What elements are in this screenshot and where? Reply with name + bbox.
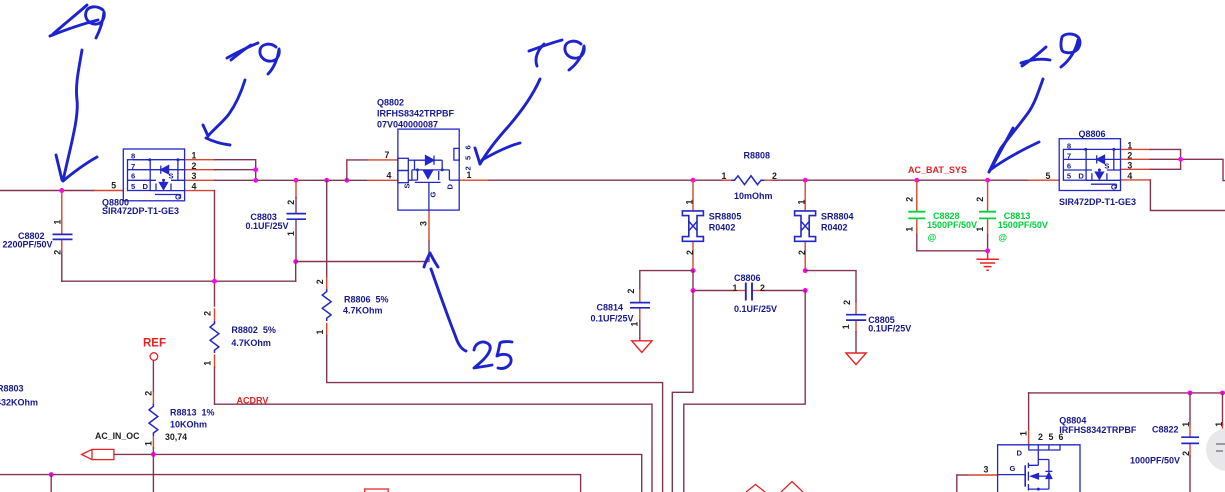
- wire C8828 vertical: [916, 180, 918, 251]
- node junction C8813 top: [985, 178, 990, 183]
- svg-text:SIR472DP-T1-GE3: SIR472DP-T1-GE3: [102, 206, 179, 216]
- svg-text:4: 4: [387, 170, 392, 180]
- svg-text:1500PF/50V: 1500PF/50V: [927, 220, 977, 230]
- annotation 19 arrow #3: [475, 40, 584, 164]
- svg-text:10KOhm: 10KOhm: [170, 419, 207, 429]
- svg-text:3: 3: [419, 221, 429, 226]
- svg-text:2: 2: [904, 197, 914, 202]
- node junction pin4/y281: [212, 279, 217, 284]
- node junction SR8804 top: [803, 178, 808, 183]
- capacitor C8806 plates: [746, 283, 752, 301]
- svg-text:1: 1: [144, 441, 154, 446]
- svg-text:1: 1: [192, 151, 197, 161]
- svg-text:5: 5: [464, 155, 473, 160]
- wire bottom y474: [0, 475, 581, 492]
- svg-text:1: 1: [1214, 422, 1224, 427]
- pins 2 1 C8814 rotated: [626, 289, 640, 327]
- wire x805 down: [684, 291, 805, 492]
- svg-text:3: 3: [984, 464, 989, 474]
- label SR8804 refdes/value: [821, 212, 854, 233]
- port chevron bottom 2: [781, 482, 803, 492]
- pins 1 2 SR8805 rotated: [685, 200, 696, 256]
- wire Q8800 pin4 to R8802 chain: [185, 191, 215, 405]
- svg-text:Q8804: Q8804: [1059, 415, 1086, 425]
- pins 2 1 R8802 rotated: [203, 311, 213, 366]
- svg-text:4.7KOhm: 4.7KOhm: [231, 338, 271, 348]
- svg-text:R0402: R0402: [821, 222, 848, 232]
- svg-text:C8822: C8822: [1152, 425, 1179, 435]
- wire Q8804 pin3: [957, 475, 998, 492]
- svg-text:1500PF/50V: 1500PF/50V: [998, 220, 1048, 230]
- svg-text:@: @: [998, 232, 1007, 242]
- svg-text:S: S: [403, 183, 412, 188]
- pins 1-4 Q8800 right: [192, 151, 197, 192]
- svg-text:6: 6: [1067, 161, 1071, 170]
- svg-text:2: 2: [143, 391, 153, 396]
- svg-text:5: 5: [131, 182, 136, 191]
- svg-text:2: 2: [315, 279, 325, 284]
- svg-text:5: 5: [111, 181, 116, 191]
- svg-text:1: 1: [53, 220, 63, 225]
- svg-text:S: S: [1104, 161, 1109, 170]
- svg-text:R8806 5%: R8806 5%: [344, 294, 389, 304]
- svg-text:07V040000087: 07V040000087: [377, 120, 438, 130]
- capacitor C8802 plates: [53, 234, 73, 239]
- wire SR8805 stubs: [692, 180, 694, 270]
- label R8808 refdes/value: [734, 150, 773, 201]
- resistor R8802 zigzag: [210, 321, 219, 353]
- svg-text:8: 8: [1067, 141, 1071, 150]
- svg-text:6: 6: [1059, 432, 1064, 442]
- pins 2 5 6 Q8804: [1038, 432, 1064, 442]
- wire Q8806 pins 1-2-3 tie: [1150, 149, 1225, 180]
- pins 2 1 C8828 rotated: [904, 197, 914, 232]
- svg-text:R8813 1%: R8813 1%: [170, 407, 215, 417]
- wire Q8806 pin4 path: [1150, 180, 1225, 211]
- svg-text:R0402: R0402: [709, 222, 736, 232]
- label Q8804 refdes/value: [1059, 415, 1137, 435]
- node junction y474 left: [49, 472, 54, 477]
- wire Q8800 pin2: [185, 169, 256, 171]
- svg-text:6: 6: [464, 145, 473, 149]
- annotation 19 arrow #1: [50, 5, 104, 181]
- wire corner y261 to y281: [295, 262, 297, 282]
- capacitor C8814 plates: [630, 303, 650, 308]
- wire AC_IN_OC horizontal: [114, 454, 642, 492]
- wire bottom net y281: [62, 280, 296, 282]
- label C8806 refdes/value: [734, 273, 777, 314]
- terminal REF circle: [150, 353, 158, 361]
- node junction C8822 top: [1188, 390, 1193, 395]
- svg-text:Q8806: Q8806: [1079, 129, 1106, 139]
- resistor R8806 zigzag: [322, 289, 331, 321]
- svg-text:2200PF/50V: 2200PF/50V: [3, 240, 53, 250]
- svg-text:1: 1: [1019, 431, 1029, 436]
- svg-text:2: 2: [772, 171, 777, 181]
- svg-text:5: 5: [1049, 432, 1054, 442]
- svg-text:0.1UF/25V: 0.1UF/25V: [246, 221, 289, 231]
- node junction C8806 right: [803, 288, 808, 293]
- svg-text:Q8802: Q8802: [377, 98, 404, 108]
- svg-text:1: 1: [286, 231, 296, 236]
- svg-text:IRFHS8342TRPBF: IRFHS8342TRPBF: [1059, 425, 1137, 435]
- svg-text:2: 2: [685, 250, 695, 255]
- svg-text:8: 8: [131, 152, 135, 161]
- node junction AC_IN_OC / R8813: [151, 452, 156, 457]
- node junction C8828 top: [914, 178, 919, 183]
- svg-text:R8808: R8808: [744, 150, 771, 160]
- node junction pin3 bus a: [253, 178, 258, 183]
- node junction C8806 left: [691, 288, 696, 293]
- ground triangle under C8805: [846, 353, 866, 365]
- wire C8806 row left: [693, 271, 745, 291]
- label SR8805 refdes/value: [709, 212, 742, 233]
- transistor Q8806 (SIR472DP-T1-GE3): [1059, 139, 1120, 191]
- wire Q8800 pin1: [185, 160, 256, 181]
- wire Q8804 pin1 vertical: [1028, 393, 1030, 445]
- svg-text:5: 5: [1067, 172, 1072, 181]
- transistor Q8804 (IRFHS8342TRPBF) clipped at bottom: [998, 445, 1080, 492]
- svg-text:1: 1: [722, 171, 727, 181]
- svg-text:7: 7: [385, 150, 390, 160]
- svg-text:432KOhm: 432KOhm: [0, 398, 38, 408]
- svg-text:0.1UF/25V: 0.1UF/25V: [591, 313, 634, 323]
- node junction C8802/main: [59, 188, 64, 193]
- svg-text:1: 1: [797, 200, 807, 205]
- node junction C8803 bottom: [293, 259, 298, 264]
- wire C8822 vertical: [1189, 393, 1191, 492]
- svg-text:R8803: R8803: [0, 384, 24, 394]
- wire ACDRV horizontal: [215, 404, 653, 492]
- svg-text:D: D: [1017, 449, 1023, 458]
- wire C8803 vertical: [295, 180, 297, 261]
- capacitor C8803 plates: [287, 214, 307, 220]
- pins 2 1 R8806 rotated: [315, 279, 325, 334]
- svg-text:3: 3: [192, 171, 197, 181]
- svg-text:1000PF/50V: 1000PF/50V: [1130, 455, 1180, 465]
- node junction Q8806 pins tie: [1178, 157, 1183, 162]
- label C8803 refdes/value: [246, 212, 289, 231]
- ANNOTATIONS handwritten blue ink: [50, 5, 1080, 368]
- svg-text:30,74: 30,74: [165, 432, 187, 442]
- node junction SR8804 bottom: [803, 268, 808, 273]
- svg-text:0.1UF/25V: 0.1UF/25V: [734, 304, 777, 314]
- wire Q8800 pin3 main bus: [185, 179, 398, 181]
- svg-text:4: 4: [192, 181, 197, 191]
- svg-text:@: @: [928, 232, 937, 242]
- resistor R8813 zigzag: [149, 404, 158, 436]
- svg-text:G: G: [429, 192, 438, 198]
- svg-text:1: 1: [203, 361, 213, 366]
- svg-text:2: 2: [286, 200, 296, 205]
- svg-text:2: 2: [203, 311, 213, 316]
- node junction SR8805 bottom: [691, 268, 696, 273]
- svg-text:ACDRV: ACDRV: [237, 395, 269, 405]
- node junction SR8805 top: [691, 178, 696, 183]
- wire C8802 vertical: [61, 191, 63, 282]
- label C8822 refdes/value: [1130, 425, 1180, 466]
- svg-text:2: 2: [1181, 451, 1191, 456]
- wire to C8805: [805, 271, 856, 353]
- label C8814 refdes/value: [591, 302, 634, 323]
- svg-text:G: G: [1010, 464, 1016, 473]
- pins 1 2 R8808: [722, 171, 778, 181]
- svg-text:2: 2: [975, 197, 985, 202]
- svg-text:2: 2: [760, 283, 765, 293]
- annotation 19 arrow #4: [989, 34, 1080, 172]
- wire Q8806 pin stubs right: [1121, 149, 1151, 180]
- label C8805 refdes/value: [868, 315, 911, 333]
- label C8813 green: [998, 211, 1048, 242]
- sense resistor SR8805 (R0402): [682, 211, 703, 241]
- svg-text:10mOhm: 10mOhm: [734, 191, 773, 201]
- labels S G D inside Q8802 rotated: [403, 183, 455, 197]
- label R8803 refdes/value clipped: [0, 384, 38, 408]
- annotation 19 arrow #2: [203, 43, 279, 145]
- capacitor far-right plates (clipped): [1214, 437, 1225, 443]
- svg-text:REF: REF: [143, 337, 166, 349]
- svg-text:2: 2: [1038, 432, 1043, 442]
- port AC_IN_OC pentagon: [82, 449, 114, 459]
- svg-text:2: 2: [842, 300, 852, 305]
- wire REF to R8813 chain: [152, 360, 154, 492]
- svg-text:AC_IN_OC: AC_IN_OC: [95, 431, 140, 441]
- pins 1 2 C8822 rotated: [1181, 422, 1191, 456]
- pins 2 1 C8805 rotated: [841, 300, 852, 329]
- svg-text:1: 1: [733, 283, 738, 293]
- pins 7 4 1 Q8802: [385, 150, 472, 180]
- svg-text:D: D: [1078, 172, 1084, 181]
- svg-text:7: 7: [1067, 152, 1071, 161]
- transistor Q8802 (IRFHS8342TRPBF): [398, 129, 459, 210]
- pins 2 1 C8813 rotated: [975, 197, 985, 232]
- svg-text:6: 6: [131, 172, 135, 181]
- port chevron bottom 1: [746, 485, 765, 492]
- wire SR8804 stubs: [804, 180, 806, 270]
- svg-text:AC_BAT_SYS: AC_BAT_SYS: [908, 165, 967, 175]
- svg-text:2: 2: [626, 289, 636, 294]
- wire y474 drop: [50, 475, 52, 492]
- label C8802 refdes/value: [3, 231, 53, 250]
- wire green caps bottom: [917, 250, 988, 252]
- svg-text:2: 2: [797, 250, 807, 255]
- svg-text:C8806: C8806: [734, 273, 761, 283]
- wire C8806 row right: [753, 290, 806, 292]
- transistor Q8800 (SIR472DP-T1-GE3): [123, 149, 184, 201]
- node junction C8803 top: [294, 178, 299, 183]
- svg-text:1: 1: [841, 324, 851, 329]
- svg-text:1: 1: [685, 200, 695, 205]
- label R8806 refdes/value: [343, 294, 389, 315]
- ground earth symbol under green caps: [976, 251, 998, 270]
- svg-text:R8802 5%: R8802 5%: [231, 325, 276, 335]
- svg-text:1: 1: [975, 227, 985, 232]
- annotation 25 arrow: [424, 253, 512, 368]
- pins 6 5 2 Q8802 rotated: [464, 145, 473, 170]
- wire x693 down with jog: [672, 291, 693, 492]
- pins 2 1 C8803 rotated: [286, 200, 296, 236]
- wire to C8814: [640, 271, 693, 341]
- sense resistor SR8804 (R0402): [795, 211, 816, 241]
- svg-text:1: 1: [1181, 422, 1191, 427]
- label C8828 green: [927, 211, 977, 242]
- pins 2 1 R8813 rotated: [143, 391, 153, 446]
- wire bottom-right bus y393: [1029, 392, 1225, 394]
- capacitor C8813 green plates: [979, 212, 996, 219]
- svg-text:D: D: [446, 184, 455, 190]
- svg-text:S: S: [169, 172, 174, 181]
- svg-text:G: G: [175, 193, 181, 202]
- resistor R8808 zigzag: [732, 176, 765, 185]
- svg-text:SIR472DP-T1-GE3: SIR472DP-T1-GE3: [1059, 197, 1136, 207]
- svg-text:C8814: C8814: [597, 302, 624, 312]
- port partial rect bottom middle: [365, 489, 389, 492]
- label Q8802 refdes/value: [377, 98, 455, 130]
- svg-text:IRFHS8342TRPBF: IRFHS8342TRPBF: [377, 109, 455, 119]
- svg-text:2: 2: [464, 166, 473, 170]
- svg-text:2: 2: [192, 161, 197, 171]
- node junction R8806 top: [324, 178, 329, 183]
- svg-text:1: 1: [1127, 140, 1132, 150]
- pins 1 2 SR8804 rotated: [797, 200, 808, 256]
- svg-text:0.1UF/25V: 0.1UF/25V: [868, 324, 911, 334]
- svg-text:SR8805: SR8805: [709, 212, 742, 222]
- capacitor C8828 green plates: [908, 212, 925, 219]
- pins 8765 D inside Q8800: [131, 152, 181, 202]
- ground triangle under C8814: [632, 341, 652, 353]
- wire C8813 vertical: [987, 180, 989, 251]
- svg-text:1: 1: [630, 322, 640, 327]
- wire main left horizontal to Q8800 pin5: [0, 190, 123, 192]
- node junction green caps bottom: [985, 248, 990, 253]
- label Q8800 refdes/value: [102, 198, 179, 216]
- svg-text:1: 1: [904, 227, 914, 232]
- svg-text:5: 5: [1046, 171, 1051, 181]
- wire far right cap vertical: [1222, 393, 1224, 437]
- svg-text:4.7KOhm: 4.7KOhm: [343, 306, 383, 316]
- pins 1-4 Q8806 right: [1127, 140, 1132, 181]
- svg-text:7: 7: [131, 162, 135, 171]
- ui gray circle bottom right: [1206, 428, 1225, 471]
- wire y261 to Q8802 pin3: [296, 210, 429, 261]
- wire R8806 chain: [327, 180, 663, 492]
- svg-text:2: 2: [1127, 151, 1132, 161]
- capacitor C8805 plates: [846, 315, 866, 320]
- svg-text:D: D: [143, 182, 149, 191]
- labels D G inside Q8804: [1010, 449, 1023, 474]
- svg-text:4: 4: [1127, 171, 1132, 181]
- svg-text:SR8804: SR8804: [821, 212, 854, 222]
- label R8813 refdes/value: [170, 407, 215, 429]
- svg-text:3: 3: [1127, 161, 1132, 171]
- wire Q8802 pin1 long bus: [459, 179, 1059, 181]
- pins 1 2 C8802 rotated: [53, 220, 63, 255]
- pins 8765 D inside Q8806: [1067, 141, 1117, 191]
- wire Q8802 pin7 riser: [347, 160, 398, 180]
- capacitor C8822 plates: [1181, 437, 1199, 443]
- svg-text:G: G: [1111, 182, 1117, 191]
- svg-text:2: 2: [53, 250, 63, 255]
- label Q8806 refdes/value: [1059, 129, 1136, 207]
- pins 1 2 C8806: [733, 283, 766, 293]
- node junction Q8802 pin7 riser: [344, 178, 349, 183]
- label R8802 refdes/value: [231, 325, 276, 348]
- node junction pin1-pin2: [253, 167, 258, 172]
- node junction far right cap top: [1220, 390, 1225, 395]
- svg-text:1: 1: [467, 170, 472, 180]
- svg-text:1: 1: [315, 330, 325, 335]
